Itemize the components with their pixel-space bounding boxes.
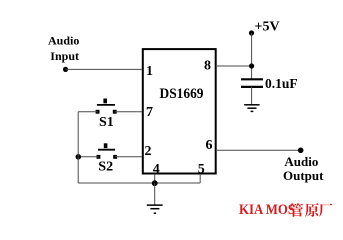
node junction pin8/+5V/C1 bbox=[249, 63, 254, 68]
svg-text:2: 2 bbox=[145, 144, 152, 159]
watermark CJK glyph 原 bbox=[305, 203, 319, 217]
wire pin 5 stub bbox=[199, 174, 201, 183]
node junction S2 on left bus bbox=[76, 154, 82, 160]
svg-text:Audio: Audio bbox=[48, 33, 79, 47]
switch S2 pushbutton bbox=[97, 143, 118, 158]
svg-text:5: 5 bbox=[198, 162, 205, 177]
wire S1 right to pin 7 bbox=[115, 111, 142, 113]
node junction bottom ground bbox=[152, 180, 158, 186]
svg-text:S1: S1 bbox=[99, 115, 114, 130]
node Audio Input dot bbox=[63, 67, 68, 72]
svg-text:8: 8 bbox=[204, 59, 211, 74]
svg-text:4: 4 bbox=[153, 162, 160, 177]
node Audio Output dot bbox=[298, 148, 304, 154]
wire pin 4 stub bbox=[154, 174, 156, 183]
svg-text:0.1uF: 0.1uF bbox=[265, 76, 298, 91]
wire C1 to ground bbox=[251, 87, 253, 105]
wire pin 6 to audio output bbox=[216, 149, 301, 151]
watermark CJK glyph 厂 bbox=[319, 203, 332, 216]
svg-text:Audio: Audio bbox=[284, 154, 318, 169]
svg-text:7: 7 bbox=[146, 105, 153, 120]
svg-text:KIA MOS: KIA MOS bbox=[239, 202, 295, 218]
svg-text:DS1669: DS1669 bbox=[160, 86, 204, 102]
wire +5V down to pin8 junction bbox=[251, 33, 253, 79]
svg-text:1: 1 bbox=[146, 64, 153, 79]
wire S1 left bbox=[78, 111, 97, 113]
node +5V dot bbox=[249, 30, 254, 35]
svg-text:Input: Input bbox=[50, 49, 79, 63]
wire S2 left bbox=[78, 156, 98, 158]
wire to bottom ground bbox=[154, 183, 156, 205]
ground under C1 bbox=[244, 105, 259, 112]
wire S2 right to pin 2 bbox=[115, 156, 142, 158]
wire left bus vertical bbox=[77, 112, 79, 183]
svg-text:Output: Output bbox=[283, 168, 324, 183]
svg-text:6: 6 bbox=[206, 138, 213, 153]
svg-text:S2: S2 bbox=[98, 160, 113, 175]
IC U1 DS1669 body bbox=[143, 49, 216, 173]
wire audio input to pin 1 bbox=[66, 68, 143, 70]
wire pin 8 to junction bbox=[216, 65, 252, 67]
watermark KIA MOS (red) bbox=[239, 202, 333, 218]
wire bottom horizontal bbox=[78, 182, 200, 184]
ground bottom bbox=[147, 205, 163, 213]
svg-text:+5V: +5V bbox=[255, 19, 280, 34]
capacitor C1 0.1uF bbox=[241, 78, 263, 80]
switch S1 pushbutton bbox=[96, 99, 117, 114]
watermark CJK glyph 管 bbox=[290, 203, 304, 217]
